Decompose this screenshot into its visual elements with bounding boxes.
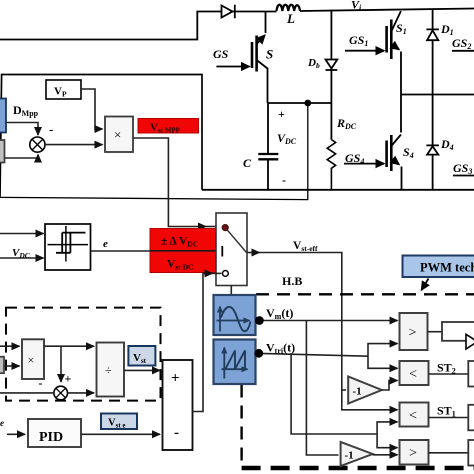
wire inductor to Vi rail (300, 9, 474, 12)
svg-text:Vi: Vi (351, 0, 362, 13)
svg-text:GS4: GS4 (345, 151, 364, 166)
wire input to multiplier2 (0, 345, 20, 347)
subtractor circle (MPPT) (30, 137, 45, 152)
svg-text:L: L (286, 11, 295, 26)
block hysteresis comparator (45, 224, 91, 270)
wire comp4 output (429, 452, 469, 454)
wire input to PID (7, 433, 25, 435)
switch open contact (223, 271, 229, 277)
wire feedback into subtractor2 (0, 392, 54, 394)
comparator 2 (ST2) (400, 361, 429, 385)
svg-text:+: + (65, 372, 72, 386)
wire multiplier2 to divider (44, 345, 94, 347)
svg-text:C: C (243, 156, 252, 170)
block sine generator Vm (214, 295, 256, 335)
svg-text:GS3: GS3 (453, 161, 472, 176)
label H.B (282, 274, 302, 288)
svg-text:GS1: GS1 (349, 33, 368, 48)
label box dVdc / Vst DC (red) (150, 229, 216, 273)
wire comp2 output ST2 (429, 373, 469, 375)
wire VP to multiplier (81, 89, 103, 129)
svg-text:e: e (103, 238, 108, 250)
svg-text:×: × (28, 353, 35, 367)
svg-text:D1: D1 (440, 22, 454, 37)
box VP (46, 80, 81, 99)
label e (error) (103, 238, 108, 250)
svg-text:S1: S1 (396, 21, 407, 36)
svg-text:-1: -1 (353, 386, 362, 398)
label GS1 (349, 33, 368, 48)
label C (243, 156, 252, 170)
arrow PWM label to region (422, 279, 429, 291)
label divide (105, 363, 112, 377)
wire grey block to subtractor (5, 155, 39, 159)
svg-text:DMpp: DMpp (13, 103, 39, 118)
comparator 3 (ST1) (400, 403, 429, 427)
label + (summer) (171, 371, 180, 387)
svg-text:D4: D4 (440, 137, 454, 152)
svg-text:ST1: ST1 (437, 404, 456, 419)
svg-text:PWM tech: PWM tech (420, 261, 474, 275)
svg-text:<: < (409, 367, 417, 382)
block triangle generator Vtri (214, 340, 256, 385)
label Vtri(t) (266, 341, 295, 356)
svg-text:Db: Db (307, 57, 320, 70)
MPPT controller outer box (0, 75, 202, 198)
wire gate lead S3 (453, 175, 474, 177)
wire tap down to subtractor2 (60, 346, 62, 382)
label - (subtractor sign) (49, 122, 53, 137)
label > (comp4) (409, 446, 417, 461)
label GS3 (453, 161, 472, 176)
svg-text:GS2: GS2 (452, 36, 471, 51)
wire multiplier to HB switch top contact (133, 138, 221, 227)
label box Vst MPP (red) (138, 119, 199, 134)
label x (multiplier2) (28, 353, 35, 367)
svg-text:PID: PID (39, 430, 63, 445)
comparator 1 (Vm > Vtri) (400, 313, 428, 350)
wire Db to Rdc (330, 69, 332, 140)
svg-text:Vm(t): Vm(t) (266, 306, 293, 321)
dashed border PWM technique region (bottom, thick) (242, 466, 474, 471)
svg-text:×: × (114, 127, 121, 142)
transistor S (boost switch, collector arrow) (216, 35, 267, 103)
diode Db (326, 60, 338, 71)
label GS (gate of S) (213, 47, 229, 61)
label L (286, 11, 295, 26)
svg-text:S4: S4 (403, 145, 414, 160)
wire Vm line (256, 320, 398, 322)
wire PID to summer minus (81, 433, 160, 435)
block multiplier X (105, 117, 133, 153)
label box PWM technique (blue) (403, 256, 474, 278)
svg-text:H.B: H.B (282, 274, 302, 288)
svg-text:+: + (171, 371, 180, 387)
svg-text:+: + (278, 107, 285, 121)
label RDC (336, 116, 357, 131)
svg-text:>: > (409, 326, 417, 341)
node Vm junction dot (255, 316, 264, 325)
wire subtractor2 to divider (68, 392, 95, 394)
wire inverter2 to comp4 lower input (373, 454, 398, 456)
label -1 (upper) (353, 386, 362, 398)
wire subtractor to multiplier (45, 144, 103, 146)
label > (comp1) (409, 326, 417, 341)
wire mid rail (leg output) (401, 94, 474, 96)
label GS2 (452, 36, 471, 51)
label - (subtractor2) (39, 376, 43, 390)
wire branch to comp3 lower input (377, 422, 397, 434)
block gate driver ST1 (clipped) (468, 405, 474, 431)
label D4 (440, 137, 454, 152)
wire rail drop to transistor S collector (265, 12, 267, 34)
wire comp3 output ST1 (429, 417, 469, 419)
wire error e to HB switch middle (91, 250, 220, 252)
svg-text:ST2: ST2 (437, 361, 456, 376)
diode D4 (426, 145, 439, 154)
svg-text:GS: GS (213, 47, 229, 61)
inverter gain -1 (upper) (348, 377, 382, 404)
label box Vst e (blue) (101, 414, 137, 430)
svg-text:-: - (49, 122, 53, 137)
wire Vtri branch down (291, 353, 377, 434)
wire DMpp to subtractor (6, 123, 38, 136)
svg-text:-: - (174, 425, 179, 441)
label DMpp (13, 103, 39, 118)
label S4 (403, 145, 414, 160)
label + (subtractor2) (65, 372, 72, 386)
label Db (307, 57, 320, 70)
wire Vtri to comp2 upper input (368, 356, 398, 368)
label D1 (440, 22, 454, 37)
switch T terminal (221, 246, 223, 257)
svg-text:Vtri(t): Vtri(t) (266, 341, 295, 356)
wire branch to comp4 upper input (377, 434, 397, 448)
label Vi (351, 0, 362, 13)
svg-text:<: < (409, 409, 417, 424)
label + (Vdc polarity) (278, 107, 285, 121)
label - (summer) (174, 425, 179, 441)
switch arm (225, 228, 246, 253)
wire inverter1 to comp2 lower input (382, 381, 398, 391)
svg-text:-1: -1 (345, 450, 354, 462)
label Vst text (133, 352, 147, 365)
label < (comp2) (409, 367, 417, 382)
block summer +/- (163, 360, 193, 450)
block HB selector switch (216, 213, 247, 286)
block divider (97, 343, 125, 397)
wire divider to summer (124, 369, 160, 371)
block gate driver ST2 (clipped) (468, 361, 474, 387)
diode D1 (426, 29, 439, 40)
wire grey source to multiplier2 (4, 365, 20, 367)
block pulse output (comp1) (442, 322, 474, 341)
wire hysteresis input ref (0, 233, 44, 235)
wire Vst-eff tap to inverter1 (342, 389, 346, 391)
wire gate lead S2 (452, 50, 474, 52)
label Vst DC text (167, 259, 193, 272)
wire hysteresis input Vdc (0, 257, 44, 259)
transistor S4 (IGBT) (344, 135, 402, 190)
buffer triangle (clipped at edge) (466, 334, 474, 349)
wire DC bus top (S emitter to Db/Rdc node) (268, 102, 332, 104)
label PWM technique text (420, 261, 474, 275)
wire Vst-eff to comp3 upper input (342, 408, 398, 410)
wire Db branch from Vi rail (330, 10, 332, 59)
dashed border PWM technique region (left) (240, 385, 242, 463)
switch contact dot (222, 225, 228, 231)
comparator 4 (400, 440, 429, 465)
svg-text:-: - (39, 376, 43, 390)
node DC bus junction (304, 100, 311, 107)
label Vm(t) (266, 306, 293, 321)
label Vst-eff (293, 240, 318, 253)
wire Vdc sense tap (0, 103, 308, 200)
wire diode to inductor (233, 11, 277, 13)
label VDC (sense input) (12, 247, 31, 260)
wire Vm branch to inverter2 (306, 321, 338, 456)
label x (multiplier) (114, 127, 121, 142)
label ST1 (437, 404, 456, 419)
block PV duty input (blue, clipped) (0, 99, 6, 133)
svg-text:VDC: VDC (277, 131, 297, 146)
label +/- delta VDC text (161, 236, 198, 249)
label S (266, 47, 273, 62)
wire comp1 output (428, 331, 443, 333)
node Vtri junction dot (254, 349, 263, 358)
wire switch output Vst-eff (247, 253, 342, 408)
svg-text:RDC: RDC (336, 116, 357, 131)
inductor L (277, 5, 301, 11)
block measured duty input (grey, clipped) (0, 140, 5, 163)
transistor S1 (IGBT) (345, 11, 401, 133)
label e (bottom input) (0, 418, 4, 428)
dashed border Vst computation box (6, 308, 161, 401)
wire D1/D4 branch (432, 9, 434, 190)
wire e crossing red box (150, 250, 220, 252)
wire bottom DC rail (202, 189, 474, 191)
label < (comp3) (409, 409, 417, 424)
wire Vtri to comp1 lower input (368, 344, 398, 357)
block input source (grey, clipped) (0, 357, 4, 374)
label - (Vdc polarity) (282, 173, 286, 187)
svg-text:S: S (266, 47, 273, 62)
block gate driver comp4 (clipped) (468, 440, 474, 466)
label Vst MPP text (150, 122, 181, 135)
inverter gain -1 (lower) (341, 442, 373, 466)
diode (boost input) (222, 5, 235, 18)
label VP (54, 86, 67, 99)
svg-text:÷: ÷ (105, 363, 112, 377)
svg-text:Vst-eff: Vst-eff (293, 240, 318, 253)
svg-text:>: > (409, 446, 417, 461)
wire Vtri line (256, 353, 369, 356)
label ST2 (437, 361, 456, 376)
dashed border PWM technique region (top) (256, 293, 474, 295)
wire input lead to boost diode (0, 12, 221, 40)
svg-text:e: e (0, 418, 4, 428)
capacitor C (258, 103, 278, 190)
block PID (28, 419, 81, 447)
label -1 (lower) (345, 450, 354, 462)
label box Vst (blue) (128, 346, 155, 366)
label Vst e text (108, 418, 126, 430)
resistor RDC (327, 140, 335, 190)
label GS4 (345, 151, 364, 166)
label VDC (bus voltage) (277, 131, 297, 146)
wire switch to sine source (230, 286, 232, 295)
block multiplier2 (22, 339, 44, 379)
label PID (39, 430, 63, 445)
label S1 (396, 21, 407, 36)
svg-text:VDC: VDC (12, 247, 31, 260)
svg-text:-: - (282, 173, 286, 187)
subtractor2 circle (54, 386, 68, 400)
wire summer output to Vst DC input (193, 273, 222, 411)
